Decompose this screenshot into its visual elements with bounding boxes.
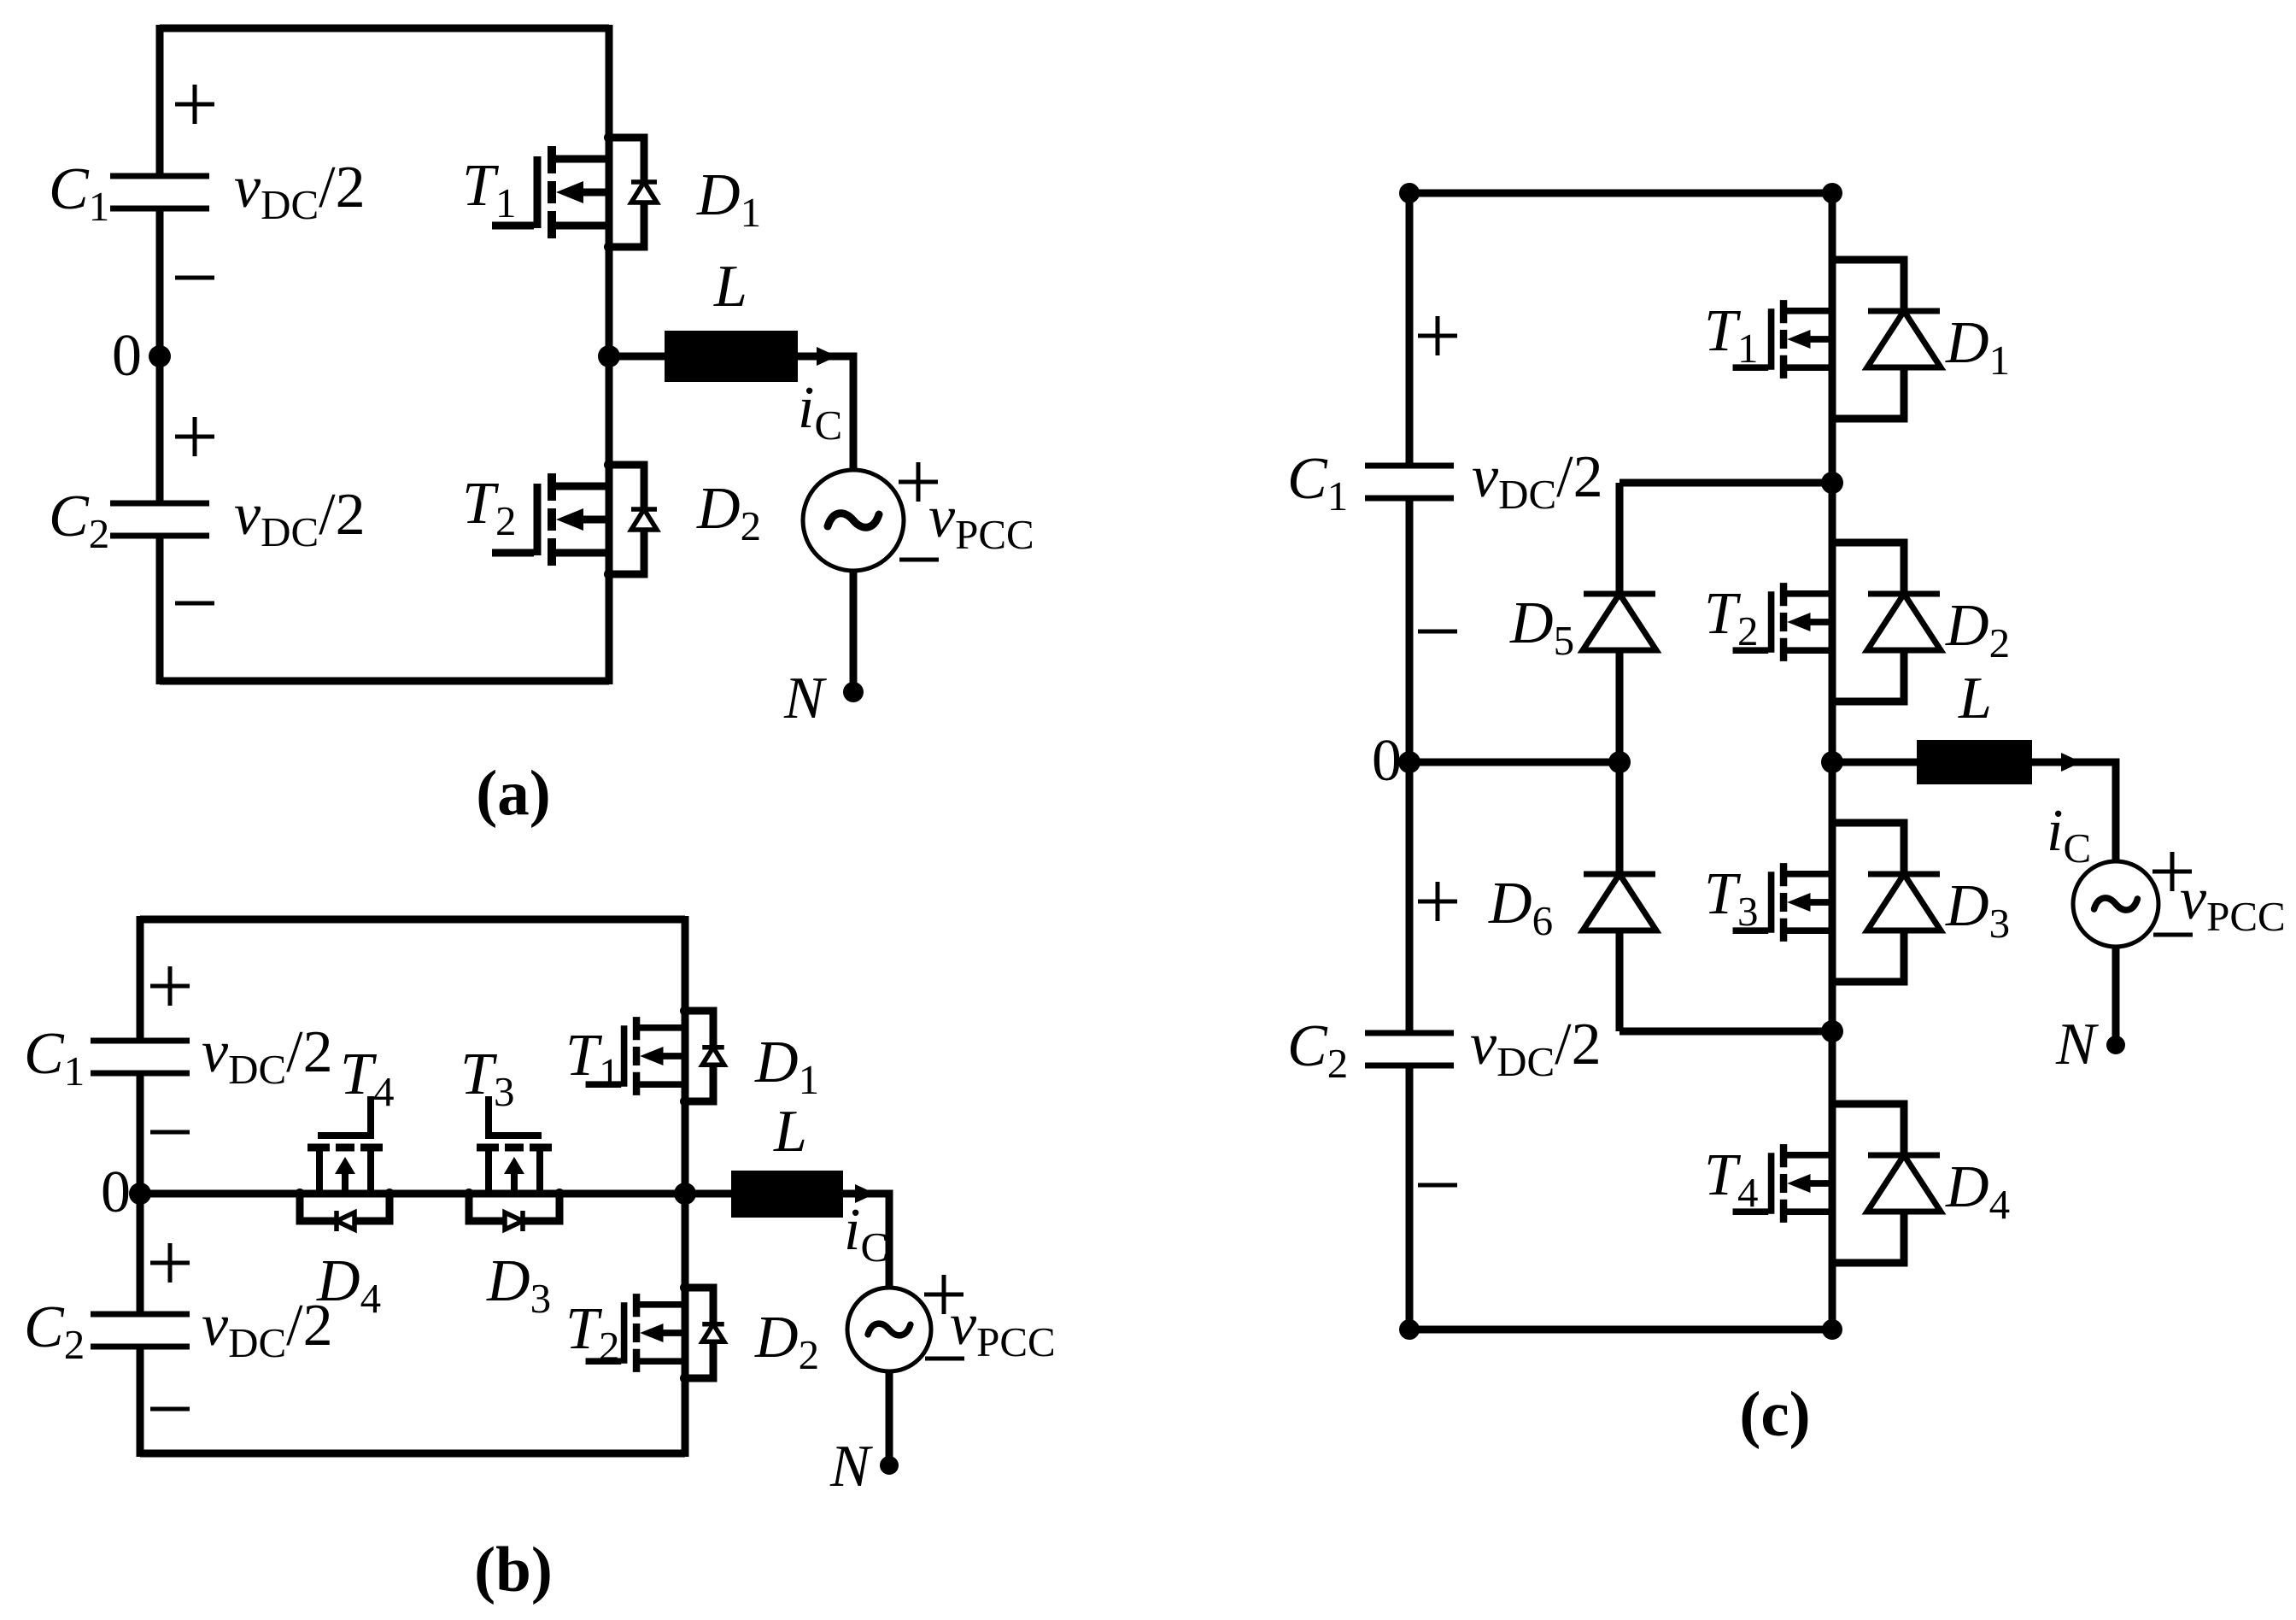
node 0 (c) xyxy=(1398,751,1420,773)
wire (c) output to inductor xyxy=(1832,759,1917,766)
label D3 (b) xyxy=(486,1248,551,1322)
wire (c) top DC bus xyxy=(1409,190,1832,197)
node top-right corner (c) xyxy=(1822,183,1842,203)
wire (c) source to N xyxy=(2112,947,2120,1045)
label T2 (c) xyxy=(1704,581,1758,654)
diode D1 (b) xyxy=(685,1011,724,1101)
label 0 (b) xyxy=(101,1159,131,1225)
label T2 (b) xyxy=(565,1296,619,1370)
label vDC/2 for C2 (c) xyxy=(1470,1012,1602,1085)
label vPCC (a) xyxy=(928,484,1034,558)
svg-text:D1: D1 xyxy=(754,1030,819,1103)
node T1 drain junction (a) xyxy=(604,132,614,143)
svg-text:vPCC: vPCC xyxy=(928,484,1034,558)
node T3 left junction (b) xyxy=(464,1189,474,1199)
svg-text:N: N xyxy=(783,666,827,731)
wire (a) left rail lower segment xyxy=(156,536,164,684)
label vDC/2 for C1 (b) xyxy=(202,1019,333,1093)
wire (a) left rail upper segment xyxy=(156,25,164,176)
svg-text:C2: C2 xyxy=(1287,1013,1348,1087)
svg-text:T3: T3 xyxy=(1704,861,1758,935)
node T2 source junction (a) xyxy=(604,569,614,579)
label D4 (b) xyxy=(316,1248,381,1322)
label D2 (a) xyxy=(696,476,761,549)
node bottom-left corner (c) xyxy=(1399,1319,1420,1340)
AC source vPCC (b) xyxy=(847,1288,931,1371)
label D3 (c) xyxy=(1945,873,2010,947)
svg-text:C1: C1 xyxy=(1287,446,1348,519)
node T1 source junction (a) xyxy=(604,242,614,252)
polarity − of C2 (a) xyxy=(175,602,214,606)
node bottom-right corner (c) xyxy=(1822,1319,1842,1340)
svg-text:T1: T1 xyxy=(1704,298,1758,372)
diode D5 (c) xyxy=(1583,594,1656,650)
label C1 (c) xyxy=(1287,446,1348,519)
svg-text:D2: D2 xyxy=(1945,593,2010,666)
node clamp midpoint junction (c) xyxy=(1608,751,1631,773)
inductor L (a) xyxy=(665,331,798,382)
svg-text:L: L xyxy=(1958,666,1992,731)
label L (a) xyxy=(713,254,747,320)
capacitor C2 (a) xyxy=(110,503,209,536)
svg-text:D1: D1 xyxy=(1945,310,2010,384)
polarity − of C2 (c) xyxy=(1418,1183,1457,1188)
polarity + of C1 (a) xyxy=(175,85,214,124)
diode D3 branch wiring (c) xyxy=(1832,823,1904,982)
label C2 (c) xyxy=(1287,1013,1348,1087)
node T1 source junction (b) xyxy=(680,1096,690,1106)
svg-text:vDC/2: vDC/2 xyxy=(202,1019,333,1093)
svg-text:(c): (c) xyxy=(1739,1379,1810,1450)
node T2 source junction (b) xyxy=(680,1373,690,1383)
polarity − of C1 (c) xyxy=(1418,630,1457,634)
polarity − of vPCC (c) xyxy=(2153,933,2193,937)
wire (b) output to inductor xyxy=(685,1190,731,1198)
node T2 drain junction (b) xyxy=(680,1282,690,1293)
svg-text:vDC/2: vDC/2 xyxy=(1472,444,1603,518)
capacitor C1 (c) xyxy=(1365,466,1454,498)
node output 0-level (b) xyxy=(674,1183,696,1205)
svg-text:D4: D4 xyxy=(1945,1154,2010,1228)
label T4 (c) xyxy=(1704,1142,1758,1216)
node N (c) xyxy=(2106,1036,2125,1054)
label L (c) xyxy=(1958,666,1992,731)
wire (a) left rail middle segment xyxy=(156,208,164,503)
label vDC/2 for C1 (c) xyxy=(1472,444,1603,518)
diode D6 (c) xyxy=(1583,874,1656,930)
svg-text:vDC/2: vDC/2 xyxy=(1470,1012,1602,1085)
node T1 drain junction (b) xyxy=(680,1006,690,1016)
transistor T3 (b) xyxy=(477,1096,552,1194)
label iC (b) xyxy=(844,1197,888,1271)
svg-text:N: N xyxy=(829,1434,873,1500)
label N (b) xyxy=(829,1434,873,1500)
svg-text:T1: T1 xyxy=(565,1023,619,1096)
svg-text:vPCC: vPCC xyxy=(950,1292,1056,1365)
polarity − of C2 (b) xyxy=(150,1407,190,1412)
node T3-T4 junction (c) xyxy=(1821,1020,1843,1042)
svg-text:C2: C2 xyxy=(24,1294,85,1368)
wire (a) right rail xyxy=(606,25,613,684)
diode D2 (a) xyxy=(609,465,657,574)
label T1 (c) xyxy=(1704,298,1758,372)
wire (b) inductor to source corner xyxy=(843,1194,889,1288)
label vDC/2 for C2 (a) xyxy=(234,482,366,555)
svg-text:(a): (a) xyxy=(476,758,550,829)
label D2 (b) xyxy=(754,1305,819,1378)
wire (b) left rail upper segment xyxy=(137,916,144,1041)
polarity + of C2 (b) xyxy=(150,1243,190,1282)
transistor T4 (c) xyxy=(1733,1144,1832,1223)
polarity − of vPCC (a) xyxy=(899,558,939,562)
svg-text:0: 0 xyxy=(1372,728,1402,794)
svg-text:T3: T3 xyxy=(460,1042,514,1115)
svg-text:vDC/2: vDC/2 xyxy=(234,155,366,228)
label iC (c) xyxy=(2047,798,2091,872)
node output junction (c) xyxy=(1821,751,1843,773)
wire (a) source to N xyxy=(850,571,858,692)
polarity + of vPCC (a) xyxy=(899,462,938,502)
wire (c) left rail upper segment xyxy=(1406,193,1414,466)
label T1 (b) xyxy=(565,1023,619,1096)
AC source vPCC (a) xyxy=(803,470,904,571)
label T4 (b) xyxy=(340,1042,394,1115)
caption (a) xyxy=(476,758,550,829)
svg-text:T2: T2 xyxy=(462,471,516,544)
transistor T4 (b) xyxy=(307,1096,383,1194)
label C2 (b) xyxy=(24,1294,85,1368)
wire (a) inductor to source corner xyxy=(798,356,853,471)
svg-text:L: L xyxy=(773,1099,807,1165)
transistor T1 (c) xyxy=(1733,300,1832,379)
diode D2 branch wiring (c) xyxy=(1832,543,1904,701)
transistor T2 (a) xyxy=(492,473,609,566)
svg-text:D3: D3 xyxy=(486,1248,551,1322)
diode D1 (c) xyxy=(1867,311,1941,367)
svg-text:iC: iC xyxy=(844,1197,888,1271)
transistor T2 (c) xyxy=(1733,583,1832,661)
node T3 right junction (b) xyxy=(554,1189,565,1199)
label vDC/2 for C2 (b) xyxy=(202,1293,333,1366)
node T2 drain junction (a) xyxy=(604,460,614,470)
diode D2 (b) xyxy=(685,1288,724,1378)
label T3 (c) xyxy=(1704,861,1758,935)
current arrow iC (c) xyxy=(2061,753,2082,772)
capacitor C2 (b) xyxy=(91,1314,190,1347)
AC source vPCC (c) xyxy=(2073,861,2158,947)
node T4 right junction (b) xyxy=(384,1189,395,1199)
transistor T1 (b) xyxy=(586,1017,685,1095)
svg-text:C1: C1 xyxy=(24,1021,85,1095)
label T1 (a) xyxy=(462,153,516,226)
label vPCC (c) xyxy=(2180,866,2286,940)
diode D1 branch wiring (c) xyxy=(1832,260,1904,419)
svg-text:T2: T2 xyxy=(1704,581,1758,654)
polarity + of C2 (c) xyxy=(1418,882,1457,921)
svg-text:L: L xyxy=(713,254,747,320)
wire (c) right rail xyxy=(1829,193,1836,1329)
capacitor C1 (a) xyxy=(110,176,209,208)
capacitor C2 (c) xyxy=(1365,1033,1454,1065)
wire (b) left rail middle segment xyxy=(137,1073,144,1314)
label vDC/2 for C1 (a) xyxy=(234,155,366,228)
svg-text:iC: iC xyxy=(798,375,842,449)
label T3 (b) xyxy=(460,1042,514,1115)
diode D1 (a) xyxy=(609,138,657,247)
current arrow iC (a) xyxy=(817,347,837,366)
transistor T3 (c) xyxy=(1733,863,1832,942)
wire (b) top DC bus xyxy=(140,916,685,924)
label L (b) xyxy=(773,1099,807,1165)
node 0 (a) xyxy=(149,345,171,367)
svg-text:0: 0 xyxy=(112,323,142,389)
svg-text:0: 0 xyxy=(101,1159,131,1225)
node T4 left junction (b) xyxy=(295,1189,305,1199)
wire (c) clamp lower branch xyxy=(1619,762,1832,1031)
svg-text:D1: D1 xyxy=(696,162,761,236)
inductor L (b) xyxy=(731,1171,843,1218)
node T1-T2 junction (c) xyxy=(1821,472,1843,494)
caption (c) xyxy=(1739,1379,1810,1450)
node 0 (b) xyxy=(129,1183,151,1205)
label vPCC (b) xyxy=(950,1292,1056,1365)
svg-text:D5: D5 xyxy=(1509,590,1574,664)
polarity + of C1 (b) xyxy=(150,966,190,1006)
svg-text:D2: D2 xyxy=(696,476,761,549)
label C1 (b) xyxy=(24,1021,85,1095)
wire (a) bottom DC bus xyxy=(160,678,609,685)
wire (b) source to N xyxy=(886,1371,893,1465)
polarity − of C1 (b) xyxy=(150,1130,190,1135)
wire (b) left rail lower segment xyxy=(137,1347,144,1457)
diode D3 (c) xyxy=(1867,874,1941,930)
diode D2 (c) xyxy=(1867,594,1941,650)
node output 0-level (a) xyxy=(598,345,620,367)
diode D4 (c) xyxy=(1867,1155,1941,1212)
node N (b) xyxy=(880,1456,899,1475)
label D1 (b) xyxy=(754,1030,819,1103)
label C1 (a) xyxy=(49,156,109,230)
capacitor C1 (b) xyxy=(91,1041,190,1073)
transistor T1 (a) xyxy=(492,146,609,238)
svg-text:T2: T2 xyxy=(565,1296,619,1370)
svg-text:T4: T4 xyxy=(340,1042,394,1115)
wire (c) inductor to source corner xyxy=(2032,762,2116,861)
label 0 (c) xyxy=(1372,728,1402,794)
svg-text:D4: D4 xyxy=(316,1248,381,1322)
wire (b) middle 0 rail xyxy=(140,1190,685,1198)
inductor L (c) xyxy=(1917,740,2032,784)
label D5 (c) xyxy=(1509,590,1574,664)
polarity − of vPCC (b) xyxy=(925,1357,964,1361)
polarity + of vPCC (c) xyxy=(2152,852,2192,891)
transistor T2 (b) xyxy=(586,1294,685,1372)
label N (a) xyxy=(783,666,827,731)
svg-text:D3: D3 xyxy=(1945,873,2010,947)
wire (b) bottom DC bus xyxy=(140,1450,685,1458)
svg-text:vPCC: vPCC xyxy=(2180,866,2286,940)
svg-text:C1: C1 xyxy=(49,156,109,230)
polarity + of vPCC (b) xyxy=(924,1275,963,1314)
wire (c) left rail lower segment xyxy=(1406,1065,1414,1329)
wire (c) 0 rail to clamp junction xyxy=(1409,759,1619,766)
label N (c) xyxy=(2055,1012,2099,1077)
wire (b) right rail xyxy=(682,916,689,1457)
wire (c) bottom DC bus xyxy=(1409,1326,1832,1334)
label D6 (c) xyxy=(1488,871,1553,944)
label D2 (c) xyxy=(1945,593,2010,666)
label iC (a) xyxy=(798,375,842,449)
polarity + of C2 (a) xyxy=(175,417,214,456)
svg-text:N: N xyxy=(2055,1012,2099,1077)
svg-text:(b): (b) xyxy=(474,1535,553,1605)
wire (a) top DC bus xyxy=(160,25,609,32)
wire (c) clamp upper branch xyxy=(1619,483,1832,762)
label C2 (a) xyxy=(49,484,109,557)
svg-text:vDC/2: vDC/2 xyxy=(234,482,366,555)
label D1 (c) xyxy=(1945,310,2010,384)
node N (a) xyxy=(843,682,864,702)
svg-text:C2: C2 xyxy=(49,484,109,557)
label T2 (a) xyxy=(462,471,516,544)
caption (b) xyxy=(474,1535,553,1605)
label 0 (a) xyxy=(112,323,142,389)
node top-left corner (c) xyxy=(1399,183,1420,203)
svg-text:D6: D6 xyxy=(1488,871,1553,944)
svg-text:vDC/2: vDC/2 xyxy=(202,1293,333,1366)
wire (c) left rail middle segment xyxy=(1406,498,1414,1033)
diode D4 branch wiring (c) xyxy=(1832,1104,1904,1263)
diode D4 (b) xyxy=(300,1194,389,1231)
diode D3 (b) xyxy=(469,1194,559,1231)
polarity + of C1 (c) xyxy=(1418,316,1457,355)
wire (a) output to inductor xyxy=(609,353,665,361)
label D4 (c) xyxy=(1945,1154,2010,1228)
polarity − of C1 (a) xyxy=(175,276,214,280)
svg-text:iC: iC xyxy=(2047,798,2091,872)
svg-text:T1: T1 xyxy=(462,153,516,226)
svg-text:D2: D2 xyxy=(754,1305,819,1378)
current arrow iC (b) xyxy=(855,1184,876,1203)
label D1 (a) xyxy=(696,162,761,236)
svg-text:T4: T4 xyxy=(1704,1142,1758,1216)
